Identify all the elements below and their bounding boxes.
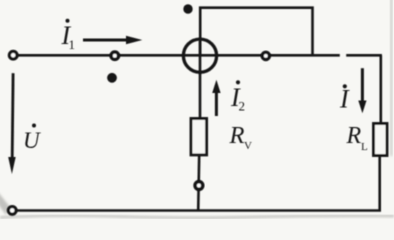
wire: middle vertical branch upper <box>199 41 202 120</box>
polarity dot near node <box>107 73 117 83</box>
crossed-circle instrument (current transducer) <box>183 39 216 72</box>
label I2 <box>230 80 245 113</box>
current arrow I1 <box>83 36 142 44</box>
wire: top measuring loop <box>200 8 312 56</box>
svg-text:R: R <box>346 123 362 149</box>
wire: bottom horizontal <box>12 209 381 212</box>
label U <box>23 124 41 154</box>
current arrow I2 <box>212 80 220 116</box>
resistor RV (body) <box>191 119 207 155</box>
voltage arrow U <box>8 73 16 174</box>
wire: middle vertical branch lower <box>198 155 199 211</box>
node circle in middle branch <box>195 182 203 190</box>
scan streak right edge <box>391 0 393 156</box>
svg-text:U: U <box>23 128 41 153</box>
node circle right of instrument <box>262 52 269 59</box>
resistor RL (body) <box>374 124 388 156</box>
terminal: bottom-left <box>8 207 16 215</box>
svg-text:L: L <box>361 141 368 153</box>
wire: top horizontal <box>13 54 382 57</box>
label RL <box>346 123 369 153</box>
svg-text:R: R <box>229 122 245 149</box>
scan shadow bottom-left diagonal <box>0 192 10 215</box>
svg-text:V: V <box>244 140 252 152</box>
wire: right branch upper <box>379 55 382 125</box>
svg-text:I: I <box>339 85 350 114</box>
svg-text:1: 1 <box>69 37 76 52</box>
current arrow I (load) <box>358 68 366 113</box>
polarity dot near loop corner <box>183 4 192 13</box>
label I1 <box>61 19 76 52</box>
label I (load) <box>339 84 350 113</box>
svg-text:2: 2 <box>239 98 246 113</box>
terminal: top-left <box>9 51 17 59</box>
terminal node on top wire <box>111 52 118 59</box>
label RV <box>229 122 253 152</box>
scan shadow bottom edge <box>0 216 394 218</box>
wire: right branch lower <box>378 154 381 211</box>
